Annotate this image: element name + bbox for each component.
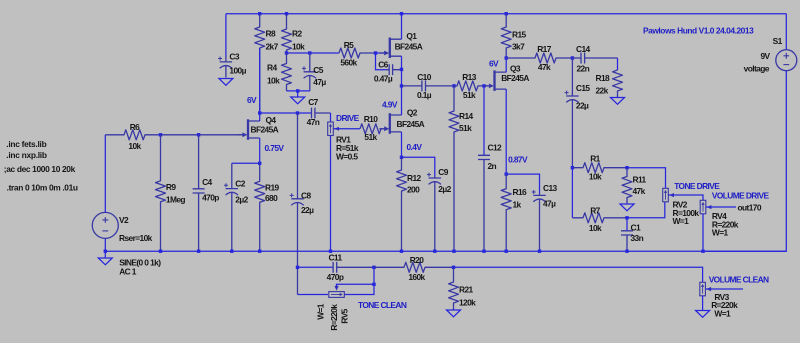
resistor R4: [282, 53, 292, 91]
capacitor C6: [386, 64, 402, 75]
svg-text:22k: 22k: [596, 85, 609, 95]
svg-text:TONE DRIVE: TONE DRIVE: [674, 181, 720, 191]
svg-text:Pawlows Hund V1.0 24.04.2013: Pawlows Hund V1.0 24.04.2013: [643, 25, 754, 35]
svg-text:R8: R8: [266, 28, 276, 38]
wire Q2 drain: [401, 86, 403, 115]
svg-text:C9: C9: [438, 167, 448, 177]
svg-text:out170: out170: [738, 203, 762, 213]
capacitor C14: [572, 53, 617, 64]
resistor R16: [501, 174, 511, 251]
wire R5 to Q1 gate: [376, 52, 388, 54]
svg-text:R20: R20: [410, 255, 425, 265]
svg-text:BF245A: BF245A: [251, 124, 279, 134]
svg-text:TONE CLEAN: TONE CLEAN: [358, 300, 407, 310]
capacitor C4: [193, 135, 205, 251]
capacitor C8: [291, 113, 303, 295]
junction bus/C4: [197, 250, 200, 253]
junction R7/C1/RV2: [625, 216, 628, 219]
svg-text:C5: C5: [313, 65, 323, 75]
wire Q4 source: [259, 138, 261, 163]
svg-text:C10: C10: [417, 72, 432, 82]
svg-text:6V: 6V: [489, 58, 499, 68]
svg-text:BF245A: BF245A: [397, 119, 425, 129]
resistor R13: [454, 81, 484, 91]
ground below R18: [611, 98, 625, 105]
junction 0.87V node: [505, 172, 508, 175]
wire rail to C3: [225, 14, 227, 56]
wire to ground: [297, 91, 299, 97]
svg-text:120k: 120k: [459, 297, 476, 307]
svg-text:VOLUME DRIVE: VOLUME DRIVE: [712, 190, 770, 200]
svg-text:R11: R11: [633, 174, 647, 184]
capacitor C5: [304, 53, 316, 91]
junction bus/C13: [538, 250, 541, 253]
junction C6 right: [400, 68, 403, 71]
svg-text:;ac dec 1000 10 20k: ;ac dec 1000 10 20k: [4, 164, 76, 174]
capacitor C11: [333, 262, 374, 273]
resistor R19: [255, 163, 265, 251]
junction bus/R12: [400, 250, 403, 253]
wire RV5 wiper: [337, 284, 375, 288]
svg-text:C14: C14: [576, 44, 591, 54]
svg-text:R14: R14: [459, 111, 474, 121]
svg-text:47k: 47k: [633, 186, 646, 196]
svg-text:.tran 0 10m 0m .01u: .tran 0 10m 0m .01u: [7, 182, 78, 192]
svg-text:1k: 1k: [513, 199, 522, 209]
wire C7 to RV1: [330, 113, 332, 122]
svg-text:W=1: W=1: [712, 228, 729, 238]
svg-text:R19: R19: [265, 182, 280, 192]
transistor Q4: [247, 119, 249, 140]
svg-text:Q4: Q4: [266, 115, 277, 125]
resistor R18: [613, 70, 623, 98]
wire node A: [287, 52, 340, 54]
junction Q4 drain node: [258, 111, 261, 114]
svg-text:47n: 47n: [307, 117, 320, 127]
svg-text:2µ2: 2µ2: [235, 195, 248, 205]
wire RV1 to bus: [330, 136, 332, 252]
wire C14 to R18: [617, 58, 619, 70]
svg-text:C7: C7: [308, 97, 318, 107]
wire RV2 wiper to RV4: [668, 195, 703, 200]
svg-text:22n: 22n: [576, 63, 589, 73]
svg-text:R17: R17: [537, 44, 552, 54]
wire V+ rail: [226, 13, 786, 15]
wire tone line to RV3: [454, 267, 703, 282]
wire to RV2 bottom: [627, 202, 665, 218]
capacitor C13: [533, 193, 545, 251]
wire RV4 to bus: [702, 214, 704, 251]
ground below R11: [620, 204, 634, 211]
wire to C6: [376, 53, 387, 70]
transistor Q1: [389, 38, 391, 59]
wire Q3 source to 0.87V node: [505, 89, 507, 174]
svg-text:R2: R2: [292, 28, 302, 38]
junction C8 tap: [296, 111, 299, 114]
svg-text:0.87V: 0.87V: [508, 154, 528, 164]
svg-text:22µ: 22µ: [576, 101, 589, 111]
svg-text:6V: 6V: [247, 95, 257, 105]
svg-text:51k: 51k: [463, 90, 476, 100]
wire to Q3 gate: [484, 85, 488, 87]
wire RV3 wiper: [705, 288, 743, 290]
svg-text:9V: 9V: [760, 51, 770, 61]
svg-text:C11: C11: [328, 252, 342, 262]
svg-text:S1: S1: [773, 36, 783, 46]
voltage source S1: [776, 50, 797, 71]
junction bus/RV4: [701, 250, 704, 253]
svg-text:2µ2: 2µ2: [438, 184, 451, 194]
ground below R4/C5: [291, 97, 305, 104]
svg-text:R10: R10: [364, 114, 379, 124]
wire S1 to bus: [703, 71, 786, 252]
potentiometer RV1: [328, 122, 334, 136]
junction bus/R19: [258, 250, 261, 253]
junction bus/R14: [452, 250, 455, 253]
junction C11/R20: [372, 266, 375, 269]
junction C6 tap: [374, 51, 377, 54]
svg-text:0.4V: 0.4V: [407, 142, 423, 152]
svg-text:33n: 33n: [631, 233, 644, 243]
capacitor C1: [621, 231, 633, 251]
resistor R6: [105, 130, 244, 140]
svg-text:R7: R7: [590, 205, 600, 215]
svg-text:C3: C3: [229, 51, 239, 61]
wire R4-C5 bottoms: [287, 90, 310, 92]
wire rail to S1: [785, 14, 787, 50]
junction rail/R15: [505, 12, 508, 15]
capacitor C7: [311, 108, 330, 119]
svg-text:V2: V2: [119, 215, 129, 225]
junction bus/R16: [505, 250, 508, 253]
wire Q3 drain: [505, 58, 507, 72]
resistor R8: [255, 14, 265, 113]
svg-text:0.1µ: 0.1µ: [417, 90, 432, 100]
svg-text:W=1: W=1: [714, 308, 731, 318]
svg-text:560k: 560k: [340, 57, 357, 67]
svg-text:C8: C8: [301, 190, 311, 200]
svg-text:R15: R15: [512, 29, 527, 39]
svg-text:BF245A: BF245A: [501, 73, 529, 83]
svg-text:3k7: 3k7: [512, 41, 525, 51]
svg-text:47k: 47k: [538, 62, 551, 72]
capacitor C15: [566, 58, 578, 168]
wire to C13: [506, 174, 539, 193]
svg-text:W=1: W=1: [315, 303, 325, 320]
resistor R2: [282, 14, 292, 53]
resistor R7: [572, 213, 627, 223]
svg-text:voltage: voltage: [744, 63, 770, 73]
potentiometer RV2: [663, 188, 669, 202]
svg-text:R=220k: R=220k: [329, 304, 339, 331]
junction bus/C12: [482, 250, 485, 253]
svg-text:VOLUME CLEAN: VOLUME CLEAN: [709, 274, 769, 284]
svg-text:200: 200: [407, 184, 420, 194]
junction C15/R1/R7: [571, 166, 574, 169]
resistor R11: [622, 168, 632, 204]
svg-text:160k: 160k: [408, 272, 425, 282]
svg-text:.inc nxp.lib: .inc nxp.lib: [6, 150, 47, 160]
wire V2 bottom: [104, 238, 106, 251]
junction R13 right: [482, 84, 485, 87]
resistor R9: [156, 135, 166, 251]
potentiometer RV3: [700, 282, 706, 296]
svg-text:C15: C15: [576, 83, 591, 93]
junction bus/R9: [159, 250, 162, 253]
resistor R12: [397, 157, 407, 251]
svg-text:470p: 470p: [202, 192, 219, 202]
junction R9 tap: [159, 133, 162, 136]
svg-text:R12: R12: [407, 173, 422, 183]
junction bus/RV1: [329, 250, 332, 253]
junction Q2 source node: [400, 156, 403, 159]
capacitor C9: [429, 176, 441, 251]
ground below R21: [447, 310, 461, 317]
svg-text:R9: R9: [166, 182, 176, 192]
svg-text:10k: 10k: [128, 141, 141, 151]
junction C10 tap: [400, 84, 403, 87]
capacitor C12: [478, 155, 490, 251]
svg-text:0.47µ: 0.47µ: [374, 73, 393, 83]
wire RV1 wiper to R10: [333, 128, 360, 130]
junction R15/R17/Q3: [505, 56, 508, 59]
svg-text:R21: R21: [459, 284, 474, 294]
svg-text:.inc fets.lib: .inc fets.lib: [6, 139, 46, 149]
capacitor C3: [220, 56, 232, 78]
junction C4 tap: [197, 133, 200, 136]
wire tone line left: [298, 266, 334, 268]
svg-text:2k7: 2k7: [266, 41, 279, 51]
svg-text:4.9V: 4.9V: [382, 99, 398, 109]
svg-text:Q1: Q1: [406, 31, 417, 41]
resistor R1: [572, 163, 627, 173]
svg-text:10k: 10k: [589, 171, 602, 181]
wire to ground V2: [104, 251, 106, 258]
junction R2/R4: [285, 51, 288, 54]
ground below V2: [98, 258, 112, 265]
capacitor C2: [226, 163, 238, 251]
svg-text:1Meg: 1Meg: [166, 194, 185, 204]
svg-text:47µ: 47µ: [313, 77, 326, 87]
junction R20/R21: [452, 266, 455, 269]
wire rail to Q1 drain: [401, 14, 403, 40]
svg-text:2n: 2n: [488, 161, 497, 171]
junction bus/C1: [625, 250, 628, 253]
junction bus/C2: [230, 250, 233, 253]
junction R13 left: [452, 84, 455, 87]
junction Q4 source node: [258, 162, 261, 165]
wire C11 down to RV5 right: [344, 267, 374, 294]
resistor R20: [374, 262, 454, 272]
junction V2/ground bus: [104, 250, 107, 253]
wire C8 branch to RV5: [298, 294, 329, 296]
wire R13 to C12: [483, 86, 485, 155]
svg-text:Q2: Q2: [407, 108, 418, 118]
junction tone line tap: [296, 266, 299, 269]
junction ground tap: [296, 89, 299, 92]
svg-text:470p: 470p: [327, 272, 344, 282]
svg-text:R16: R16: [513, 187, 528, 197]
wire drain node to C7: [260, 112, 312, 114]
svg-text:R4: R4: [267, 62, 277, 72]
wire V2 top: [104, 135, 106, 213]
svg-text:Rser=10k: Rser=10k: [119, 233, 153, 243]
resistor R15: [501, 14, 511, 58]
svg-text:C12: C12: [488, 142, 503, 152]
junction C5 tap: [308, 51, 311, 54]
svg-text:680: 680: [265, 193, 278, 203]
svg-text:10k: 10k: [589, 223, 602, 233]
svg-text:R1: R1: [590, 153, 600, 163]
junction rail/Q1: [400, 12, 403, 15]
potentiometer RV5: [329, 292, 345, 298]
svg-text:C13: C13: [543, 183, 558, 193]
svg-text:BF245A: BF245A: [395, 41, 423, 51]
svg-text:100µ: 100µ: [229, 65, 246, 75]
svg-text:RV5: RV5: [339, 308, 349, 323]
capacitor C10: [402, 80, 455, 91]
svg-text:DRIVE: DRIVE: [336, 113, 360, 123]
svg-text:C2: C2: [235, 178, 245, 188]
resistor R21: [449, 267, 459, 310]
wire RV3 to ground: [702, 296, 704, 311]
svg-text:22µ: 22µ: [301, 205, 314, 215]
svg-text:51k: 51k: [364, 132, 377, 142]
svg-text:C1: C1: [631, 222, 641, 232]
junction bus/C9: [433, 250, 436, 253]
svg-text:C6: C6: [378, 59, 388, 69]
junction rail/R8: [258, 12, 261, 15]
svg-text:10k: 10k: [267, 75, 280, 85]
junction R1/R11: [625, 166, 628, 169]
svg-text:R5: R5: [344, 40, 354, 50]
svg-text:AC 1: AC 1: [119, 266, 137, 276]
voltage source V2: [92, 212, 118, 238]
junction rail/R2: [285, 12, 288, 15]
transistor Q3: [493, 70, 495, 91]
wire R8 to Q4 drain: [259, 48, 261, 113]
resistor R5: [339, 48, 376, 58]
svg-text:W=0.5: W=0.5: [336, 151, 358, 161]
wire to C9: [402, 157, 435, 176]
wire Q1 source down: [401, 56, 403, 86]
svg-text:51k: 51k: [459, 123, 472, 133]
svg-text:10k: 10k: [292, 41, 305, 51]
svg-text:C4: C4: [202, 177, 212, 187]
svg-text:W=1: W=1: [673, 216, 690, 226]
wire down to R7: [571, 168, 573, 218]
svg-text:R13: R13: [462, 72, 477, 82]
wire to RV2 top: [627, 168, 666, 189]
svg-text:0.75V: 0.75V: [265, 143, 285, 153]
wire C2 to source node: [232, 162, 260, 164]
wire ground bus: [105, 250, 786, 252]
potentiometer RV4: [700, 200, 706, 214]
junction RV5 wiper: [372, 283, 375, 286]
junction R17/C14/C15: [571, 56, 574, 59]
resistor R17: [506, 53, 572, 63]
resistor R14: [449, 86, 459, 251]
ground below C3: [219, 79, 233, 86]
wire Q2 source: [401, 132, 403, 157]
transistor Q2: [389, 113, 391, 134]
svg-text:Q3: Q3: [510, 63, 521, 73]
wire R7 node to C1: [626, 218, 628, 231]
ground below RV3: [696, 311, 710, 318]
svg-text:R18: R18: [596, 73, 611, 83]
svg-text:R6: R6: [130, 122, 140, 132]
wire RV4 wiper to out: [706, 206, 736, 208]
svg-text:47µ: 47µ: [543, 198, 556, 208]
resistor R10: [360, 124, 387, 134]
wire Q4 drain: [259, 113, 261, 121]
